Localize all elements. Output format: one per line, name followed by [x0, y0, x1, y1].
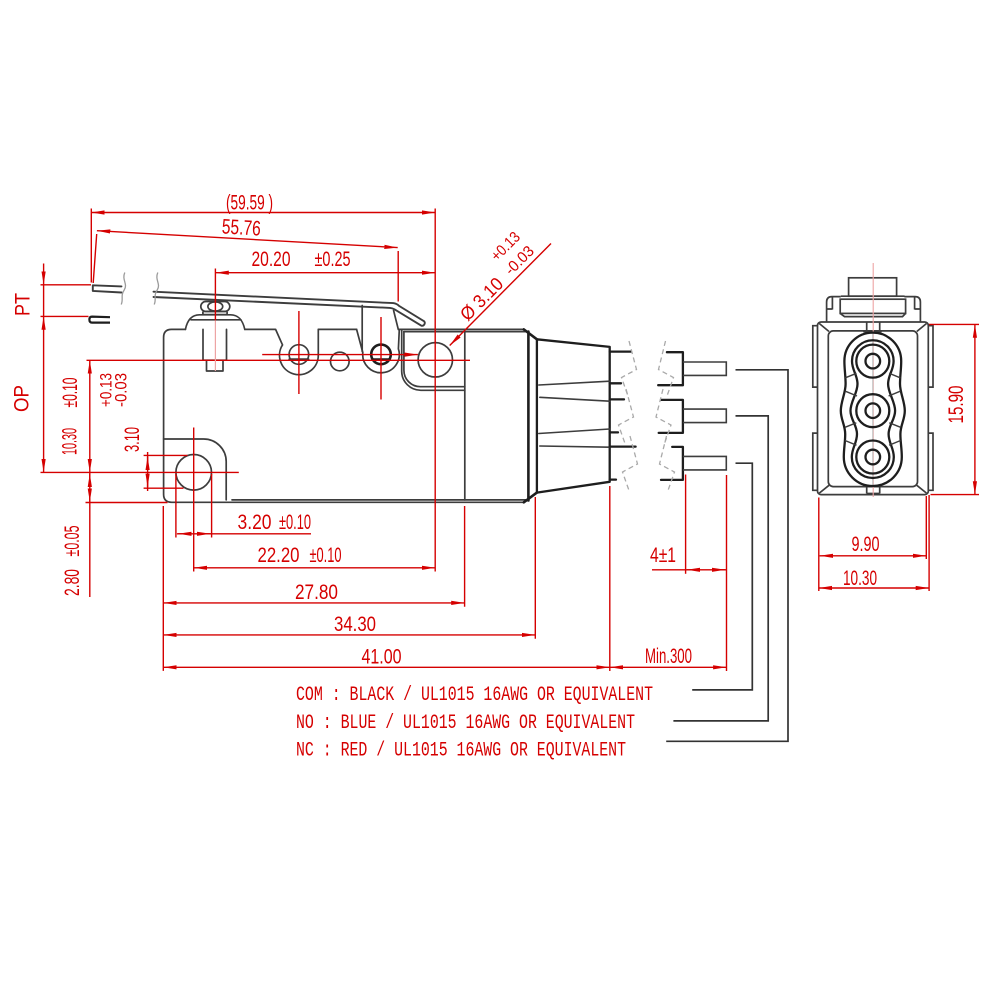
dim 41.00 right extension	[609, 486, 611, 671]
svg-text:41.00: 41.00	[362, 646, 402, 669]
pivot mount hump	[185, 315, 244, 330]
wire 3 insulation stub at boot	[610, 447, 636, 480]
wire 1 insulation stub at boot	[610, 352, 631, 384]
pivot faint centerline	[214, 320, 216, 371]
svg-text:3.20: 3.20	[238, 511, 272, 534]
dim 55.76 line (slanted)	[97, 231, 398, 248]
OP dim line	[43, 316, 45, 472]
plunger pocket	[276, 329, 319, 374]
seal inner wave	[851, 340, 896, 478]
collar inner recess	[840, 299, 905, 313]
bottom chamfer	[524, 493, 537, 503]
corner block outline	[402, 329, 465, 390]
dim 22.20 line	[194, 567, 436, 569]
body inner top line	[404, 331, 527, 333]
pivot rivet	[201, 302, 230, 315]
vertical centerline C3	[380, 317, 382, 400]
svg-text:±0.10: ±0.10	[59, 378, 82, 408]
collar outline	[827, 297, 921, 322]
plunger pin circle C1	[289, 345, 309, 365]
svg-text:-0.03: -0.03	[112, 373, 131, 407]
dim 27.80 extensions	[163, 506, 464, 671]
chord in C1	[289, 358, 308, 360]
leader wire1 to NC	[666, 370, 788, 742]
dim 9.90 extensions	[819, 496, 927, 591]
top chamfer	[524, 329, 537, 339]
terminal 2 rings	[856, 394, 889, 427]
dim 27.80 line	[163, 602, 464, 604]
leader wire3 to COM	[692, 463, 752, 690]
body top edge segments	[245, 328, 524, 330]
dim 34.30 right extension	[534, 497, 536, 639]
dim 3.10 line and arrows	[147, 452, 149, 491]
dim 3.20 extensions	[176, 474, 212, 538]
svg-text:9.90: 9.90	[852, 533, 880, 556]
wire 2 insulation segment	[659, 400, 683, 433]
dim 10.30 extension right	[928, 495, 930, 591]
connector centerline faint	[872, 263, 874, 497]
dim 20.20 line	[215, 272, 435, 274]
collar shelf	[840, 313, 905, 316]
vertical centerline mounting hole	[193, 428, 195, 572]
dim Min.300 right extension	[726, 475, 728, 671]
hole C4	[418, 343, 452, 377]
rubber boot	[537, 339, 610, 492]
mounting hole	[176, 455, 212, 491]
seal outer wave	[841, 333, 905, 486]
svg-text:4±1: 4±1	[650, 544, 676, 567]
terminal 1 rings	[856, 345, 889, 378]
dim 3.20 line	[177, 533, 311, 535]
lever main segment with bent end	[154, 292, 425, 326]
connector top tab	[849, 278, 897, 296]
PT dim line	[43, 264, 45, 285]
svg-text:3.10: 3.10	[121, 427, 144, 452]
boot outline	[537, 339, 610, 492]
svg-text:22.20: 22.20	[258, 544, 300, 567]
seal center seam	[872, 332, 874, 486]
wire leader lines	[666, 370, 788, 742]
tab ledge	[841, 295, 905, 297]
connector body outer	[818, 322, 929, 495]
svg-text:PT: PT	[12, 293, 35, 316]
wire 3 conductor	[683, 456, 726, 470]
wire 1 conductor	[683, 362, 726, 375]
wire 2 insulation stub at boot	[610, 399, 624, 432]
dim 10.30 line	[819, 587, 929, 589]
dim 4+-1 line	[652, 569, 727, 571]
svg-text:(59.59 ): (59.59 )	[226, 192, 273, 215]
chord in C3	[371, 358, 390, 360]
svg-text:±0.10: ±0.10	[310, 544, 342, 567]
mounting ear	[164, 439, 227, 500]
dim 34.30 line	[163, 634, 535, 636]
svg-text:27.80: 27.80	[295, 581, 338, 604]
svg-text:15.90: 15.90	[945, 386, 968, 424]
svg-text:20.20: 20.20	[252, 248, 291, 271]
dim 15.90 extensions	[929, 324, 979, 494]
svg-text:2.80: 2.80	[61, 569, 84, 596]
lever arm	[93, 285, 425, 325]
bold right face and chamfers of body	[524, 329, 537, 502]
boot web 2	[539, 429, 610, 447]
svg-text:10.30: 10.30	[843, 567, 877, 590]
boot web 1	[539, 381, 610, 401]
top center tab	[863, 322, 882, 331]
wire break marks (dashed)	[619, 341, 675, 491]
svg-text:COM : BLACK / UL1015 16AWG OR: COM : BLACK / UL1015 16AWG OR EQUIVALENT	[296, 684, 653, 707]
body inner bottom line	[232, 499, 527, 501]
dim 41.00 line	[163, 666, 610, 668]
svg-text:NC : RED / UL1015 16AWG OR EQU: NC : RED / UL1015 16AWG OR EQUIVALENT	[296, 740, 626, 763]
small circle C2	[331, 352, 350, 371]
bold circle C3	[371, 345, 391, 365]
centerline through C1 C3 with arrow at C4 edge	[262, 354, 418, 356]
vertical centerline C1	[298, 311, 300, 394]
side rails	[813, 326, 933, 491]
seal waist ticks	[845, 373, 901, 445]
dim (59.59) line	[91, 212, 435, 214]
svg-text:Min.300: Min.300	[645, 645, 692, 668]
mounting hole horizontal centerline	[41, 471, 239, 473]
dim 15.90 line	[974, 324, 976, 494]
PT extension lines	[41, 285, 92, 317]
wire 3 insulation segment	[661, 447, 683, 480]
dim 3.10 hole extensions	[144, 455, 188, 488]
svg-text:±0.10: ±0.10	[279, 511, 311, 534]
svg-text:55.76: 55.76	[221, 215, 261, 240]
collar side steps	[827, 297, 921, 309]
wire 1 insulation segment	[658, 352, 683, 385]
dim 9.90 line	[820, 555, 927, 557]
svg-text:±0.25: ±0.25	[315, 248, 351, 271]
terminal 3 rings	[856, 441, 889, 474]
svg-text:OP: OP	[11, 385, 34, 412]
lever pressed position stub	[89, 317, 110, 323]
dim 10.30 line	[89, 360, 91, 472]
dim Min.300 line	[610, 666, 727, 668]
corner block inner line	[404, 332, 465, 387]
svg-text:±0.05: ±0.05	[61, 526, 84, 557]
body internal vertical (case parting line)	[464, 332, 466, 500]
pivot slot and tab	[203, 329, 227, 371]
dim (59.59) left extension	[90, 209, 92, 283]
switch body outline	[164, 329, 524, 502]
body bottom extension	[86, 502, 168, 504]
lever tab lines into body	[362, 306, 398, 352]
dim 2.80 arrows	[89, 474, 91, 486]
dim 55.76 extensions	[93, 234, 398, 302]
long horizontal reference line	[87, 359, 471, 361]
leader wire2 to NO	[673, 416, 768, 721]
horseshoe pocket around C3	[357, 329, 400, 372]
dim 20.20 left extension	[214, 269, 216, 321]
connector dimensions	[819, 324, 979, 591]
svg-text:NO : BLUE / UL1015 16AWG OR EQ: NO : BLUE / UL1015 16AWG OR EQUIVALENT	[296, 712, 635, 735]
svg-text:34.30: 34.30	[334, 613, 376, 636]
bottom center tab	[863, 486, 882, 493]
inner face rect	[828, 331, 917, 487]
svg-text:10.30: 10.30	[59, 428, 82, 455]
body right face	[527, 332, 530, 501]
long vertical extension through C4	[434, 209, 436, 572]
dim 2.80 line tail	[89, 472, 91, 597]
wire 2 conductor	[683, 409, 726, 423]
lever break marks	[121, 273, 158, 305]
lever tip segment (left)	[93, 285, 122, 292]
corner bevels	[819, 324, 926, 494]
dim 4+-1 left extension	[685, 475, 687, 574]
leader dia 3.10	[450, 244, 551, 346]
